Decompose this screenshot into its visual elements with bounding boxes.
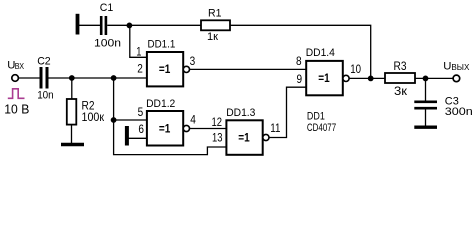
pulse symbol [8,89,25,99]
svg-text:11: 11 [270,123,280,135]
junction dot R2 node [69,75,75,81]
svg-text:=1: =1 [318,71,330,85]
wire R2 to ground [71,125,73,143]
svg-text:R3: R3 [394,59,407,73]
svg-text:ВЫХ: ВЫХ [451,62,469,72]
svg-text:R1: R1 [208,7,222,19]
svg-text:4: 4 [190,115,196,127]
svg-text:6: 6 [138,124,144,136]
ground bar under R2 [61,143,84,146]
wire terminal to C2 [18,77,39,79]
svg-text:DD1.3: DD1.3 [226,107,255,119]
junction dot feedback node [368,76,374,82]
svg-text:3к: 3к [394,84,408,98]
svg-text:300n: 300n [445,106,473,118]
wire to pin 5 of DD1.2 [114,119,147,121]
wire junction down to pin 1 of DD1.1 [130,25,147,57]
capacitor C2 [41,67,47,89]
junction dot pin5/pin13 node [111,75,117,81]
svg-text:1: 1 [136,46,141,58]
resistor R1 [201,20,230,30]
svg-text:ВХ: ВХ [15,61,25,71]
svg-text:100n: 100n [94,37,121,49]
svg-text:DD1.2: DD1.2 [146,98,175,110]
junction dot pin 5 branch [111,117,117,123]
resistor R2 [67,99,77,125]
wire ground bar to pin 6 [129,137,147,139]
output terminal U_ВЫХ [453,75,460,82]
svg-text:U: U [443,61,451,73]
ground (common) bar at C1 left [76,14,80,35]
ground bar at pin 6 [125,126,129,146]
svg-text:DD1.4: DD1.4 [306,47,335,59]
svg-text:DD1.1: DD1.1 [148,39,176,51]
svg-text:10: 10 [350,64,361,76]
wire DD1.3 out up to pin 9 of DD1.4 [269,87,306,137]
wire down to R2 [71,78,73,99]
svg-text:100к: 100к [82,110,105,124]
capacitor C3 [414,102,437,108]
XNOR gate DD1.1 [147,52,190,86]
wire DD1.2 out to pin 12 of DD1.3 [190,128,227,130]
svg-text:CD4077: CD4077 [307,122,336,134]
svg-text:2: 2 [137,64,143,76]
XNOR gate DD1.2 [147,111,190,146]
junction dot C3 node [423,76,429,82]
wire C3 to ground [425,110,427,126]
XNOR gate DD1.3 [226,120,269,155]
svg-text:10 В: 10 В [4,102,29,116]
svg-text:1к: 1к [207,31,218,43]
wire R1 right to feedback corner down to pin10 node [230,25,371,78]
svg-text:C2: C2 [37,56,51,68]
svg-text:12: 12 [212,117,223,129]
svg-text:DD1: DD1 [307,110,325,122]
wire down to C3 [425,78,427,101]
junction dot C1/R1/pin1 node [126,23,132,29]
svg-text:10n: 10n [37,90,54,102]
svg-text:13: 13 [212,132,223,144]
wire C1 to R1 [107,24,201,26]
ground bar under C3 [414,125,437,128]
wire ground bar to C1 [79,24,100,26]
svg-text:9: 9 [297,74,303,86]
wire R3 to output terminal [415,77,453,79]
input terminal U_BX [12,75,19,82]
resistor R3 [385,73,415,83]
svg-text:=1: =1 [159,62,171,76]
svg-text:8: 8 [296,56,302,68]
wire node down to pin5 and pin13 [114,78,227,155]
capacitor C1 [101,16,106,35]
svg-text:C1: C1 [100,2,114,14]
XNOR gate DD1.4 [306,61,349,95]
svg-text:3: 3 [190,56,196,68]
wire DD1.4 out to R3 [349,77,385,79]
svg-text:5: 5 [138,107,144,119]
svg-text:=1: =1 [238,131,250,145]
wire C2 to pin 2 of DD1.1 (main input line) [49,77,147,79]
wire DD1.1 out to pin 8 of DD1.4 [190,68,307,70]
svg-text:=1: =1 [159,121,171,135]
